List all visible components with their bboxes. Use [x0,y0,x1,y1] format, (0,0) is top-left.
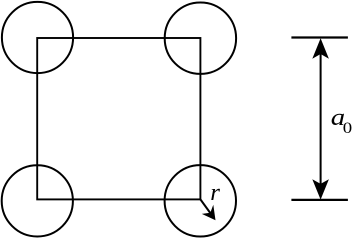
dimension tick top [291,36,348,38]
dimension tick bottom [291,199,348,201]
dimension arrowhead down [312,179,329,199]
atom circle bottom-right [165,165,236,236]
dimension arrowhead up [312,38,329,58]
radius arrowhead (r) [202,205,216,220]
atom circle top-left [2,2,73,73]
svg-text:0: 0 [343,120,352,137]
atom circle top-right [165,3,236,74]
unit-cell square [37,38,200,199]
svg-text:r: r [210,179,220,206]
atom circle bottom-left [2,165,73,236]
dimension arrow shaft a0 [320,48,322,190]
radius arrow shaft (r) [200,199,212,215]
